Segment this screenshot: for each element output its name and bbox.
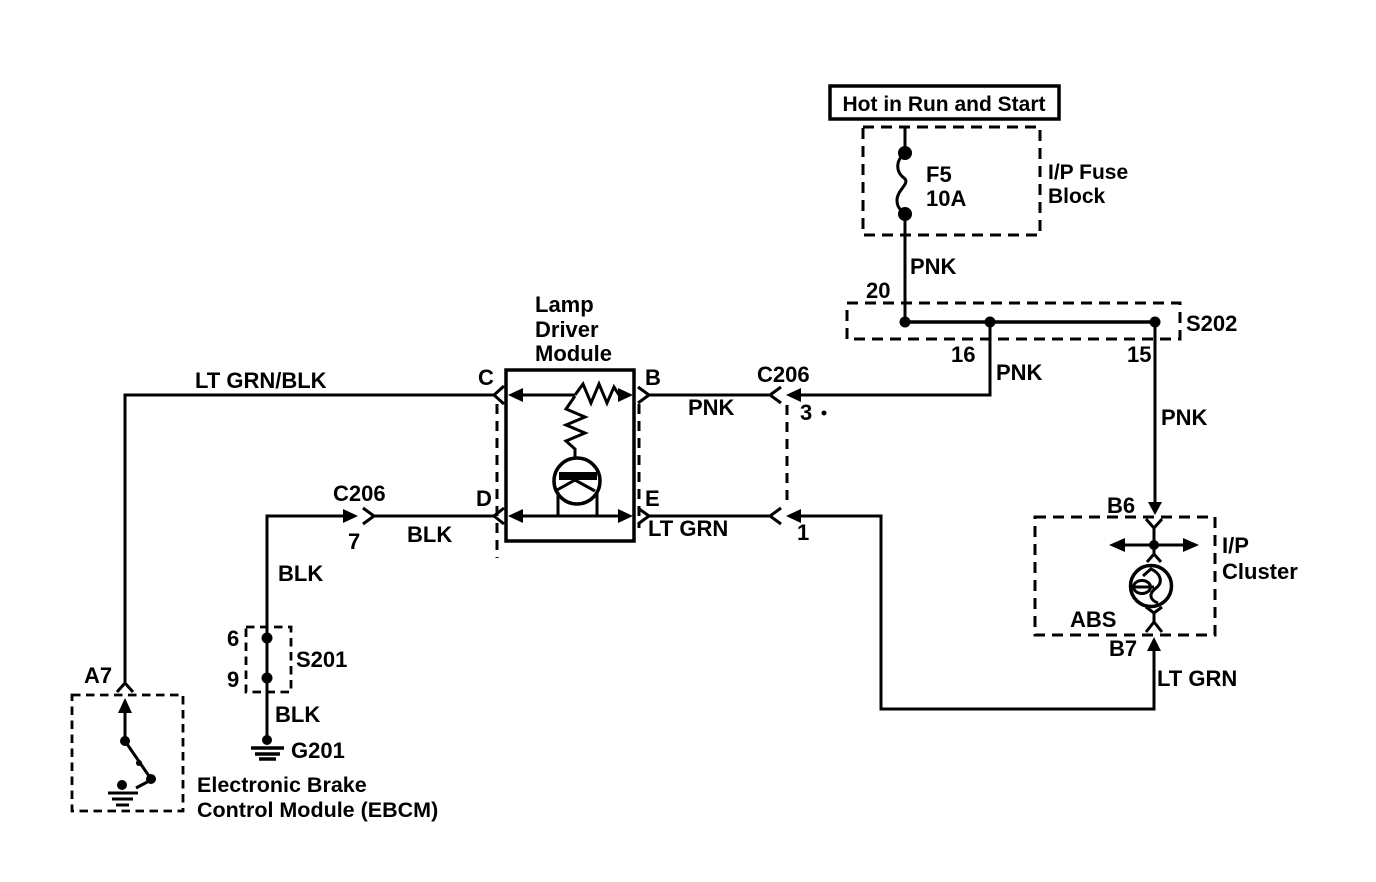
B7 chevron bbox=[1146, 622, 1162, 632]
module internal bottom wire bbox=[508, 509, 633, 523]
EBCM switch contact dot bbox=[120, 736, 130, 746]
I/P Fuse Block label bbox=[1048, 161, 1128, 208]
module right connector dashed line bbox=[638, 404, 641, 528]
C206 right dashed line bbox=[786, 405, 789, 503]
svg-text:PNK: PNK bbox=[910, 254, 957, 279]
pin E chevron bbox=[638, 508, 649, 524]
pin C chevron bbox=[494, 386, 504, 404]
svg-text:C: C bbox=[478, 365, 494, 390]
wire fuse to S202 bbox=[904, 214, 907, 322]
module internal lamp bbox=[554, 458, 600, 504]
lamp to B7 wire bbox=[1153, 613, 1156, 622]
fuse F5 10A element bbox=[897, 148, 911, 220]
svg-text:Hot in Run and Start: Hot in Run and Start bbox=[843, 93, 1046, 116]
svg-text:Driver: Driver bbox=[535, 317, 599, 342]
splice S202 dashed box bbox=[847, 303, 1180, 339]
svg-text:I/P Fuse: I/P Fuse bbox=[1048, 161, 1128, 184]
svg-text:B: B bbox=[645, 365, 661, 390]
wire B to C206 pin 3 bbox=[649, 394, 769, 397]
svg-text:PNK: PNK bbox=[996, 360, 1043, 385]
svg-text:Block: Block bbox=[1048, 185, 1106, 208]
svg-text:LT GRN: LT GRN bbox=[648, 516, 728, 541]
S201 junction dot pin 6 bbox=[262, 633, 273, 644]
svg-text:Cluster: Cluster bbox=[1222, 559, 1298, 584]
wire C to EBCM A7 bbox=[125, 395, 494, 682]
stray dot after 3 bbox=[822, 411, 827, 416]
svg-text:ABS: ABS bbox=[1070, 607, 1116, 632]
A7 chevron bbox=[117, 683, 133, 692]
C206 pin 1 arrowhead bbox=[786, 509, 801, 523]
svg-text:I/P: I/P bbox=[1222, 533, 1249, 558]
arrowhead into B7 bbox=[1147, 637, 1161, 651]
svg-text:B7: B7 bbox=[1109, 636, 1137, 661]
svg-text:16: 16 bbox=[951, 342, 975, 367]
junction dot at S202 pin 15 bbox=[1150, 317, 1161, 328]
EBCM internal driver arrow bbox=[118, 698, 132, 741]
svg-text:S201: S201 bbox=[296, 647, 347, 672]
svg-text:15: 15 bbox=[1127, 342, 1151, 367]
I/P Cluster label bbox=[1222, 533, 1298, 584]
svg-text:E: E bbox=[645, 486, 660, 511]
svg-text:9: 9 bbox=[227, 667, 239, 692]
C206 pin 1 chevron bbox=[770, 508, 781, 524]
lamp legs to bottom wire bbox=[558, 492, 597, 516]
I/P Fuse Block dashed box bbox=[863, 127, 1040, 235]
wire S201 to G201 bbox=[266, 678, 269, 740]
wire from S201 up to C206 pin 7 bbox=[267, 516, 343, 638]
wire from S202 pin 15 down to I/P cluster B6 bbox=[1154, 322, 1157, 503]
junction dot at S202 pin 20 bbox=[900, 317, 911, 328]
svg-text:A7: A7 bbox=[84, 663, 112, 688]
pin D chevron bbox=[494, 508, 504, 524]
S202 bus wire bbox=[903, 320, 1155, 324]
module left connector dashed line bbox=[496, 404, 499, 558]
svg-text:1: 1 bbox=[797, 520, 809, 545]
svg-text:LT GRN: LT GRN bbox=[1157, 666, 1237, 691]
cluster bus entry wire bbox=[1153, 528, 1156, 553]
svg-text:PNK: PNK bbox=[1161, 405, 1208, 430]
power feed box "Hot in Run and Start" bbox=[830, 86, 1059, 119]
svg-text:BLK: BLK bbox=[278, 561, 323, 586]
junction dot at S202 pin 16 bbox=[985, 317, 996, 328]
Lamp Driver Module label bbox=[535, 292, 612, 366]
svg-text:10A: 10A bbox=[926, 186, 966, 211]
C206 pin 3 arrowhead bbox=[786, 388, 801, 402]
cluster bus junction dot bbox=[1149, 540, 1159, 550]
ABS indicator lamp bbox=[1131, 566, 1172, 607]
wire from S202 pin 16 down and left to C206 pin 3 bbox=[801, 322, 990, 395]
svg-text:BLK: BLK bbox=[407, 522, 452, 547]
svg-text:Module: Module bbox=[535, 341, 612, 366]
svg-text:3: 3 bbox=[800, 400, 812, 425]
svg-text:20: 20 bbox=[866, 278, 890, 303]
svg-text:B6: B6 bbox=[1107, 493, 1135, 518]
svg-text:LT GRN/BLK: LT GRN/BLK bbox=[195, 368, 327, 393]
S201 junction dot pin 9 bbox=[262, 673, 273, 684]
EBCM ground contact dot bbox=[117, 780, 127, 790]
module internal top wire with resistor bbox=[508, 384, 633, 403]
svg-text:Lamp: Lamp bbox=[535, 292, 594, 317]
svg-text:G201: G201 bbox=[291, 738, 345, 763]
C206 pin 3 chevron bbox=[770, 387, 781, 403]
pin B chevron bbox=[638, 387, 649, 403]
Lamp Driver Module box bbox=[506, 370, 634, 541]
G201 ground symbol bbox=[251, 735, 284, 759]
I/P Cluster dashed box bbox=[1035, 517, 1215, 635]
svg-text:F5: F5 bbox=[926, 162, 952, 187]
chevron below ABS lamp bbox=[1146, 607, 1162, 613]
arrowhead into B6 bbox=[1148, 502, 1162, 515]
EBCM dashed box bbox=[72, 695, 183, 811]
cluster bus double arrow bbox=[1109, 538, 1199, 552]
B6 chevron bbox=[1146, 519, 1162, 528]
EBCM switch blade bbox=[125, 741, 156, 788]
svg-text:PNK: PNK bbox=[688, 395, 735, 420]
C206 pin 7 arrowhead bbox=[343, 509, 358, 523]
S201 internal wire bbox=[266, 638, 269, 678]
svg-text:7: 7 bbox=[348, 529, 360, 554]
chevron above ABS lamp bbox=[1147, 554, 1161, 562]
wire E to C206 pin 1 bbox=[649, 515, 769, 518]
module internal vertical resistor bbox=[566, 396, 585, 458]
EBCM label bbox=[197, 773, 438, 822]
svg-text:BLK: BLK bbox=[275, 702, 320, 727]
svg-text:6: 6 bbox=[227, 626, 239, 651]
splice S201 dashed box bbox=[246, 627, 291, 692]
wire C206 pin 7 to D bbox=[374, 515, 494, 518]
svg-text:Electronic Brake: Electronic Brake bbox=[197, 773, 367, 797]
EBCM internal ground symbol bbox=[108, 793, 138, 805]
wire C206 pin 1 to I/P cluster B7 bbox=[801, 516, 1154, 709]
wire from fuse block top to fuse bbox=[904, 128, 907, 152]
svg-text:Control Module (EBCM): Control Module (EBCM) bbox=[197, 798, 438, 822]
C206 pin 7 chevron bbox=[363, 508, 374, 524]
svg-text:C206: C206 bbox=[333, 481, 386, 506]
svg-text:C206: C206 bbox=[757, 362, 810, 387]
svg-text:D: D bbox=[476, 486, 492, 511]
fuse value label F5 10A bbox=[926, 162, 966, 211]
svg-text:S202: S202 bbox=[1186, 311, 1237, 336]
